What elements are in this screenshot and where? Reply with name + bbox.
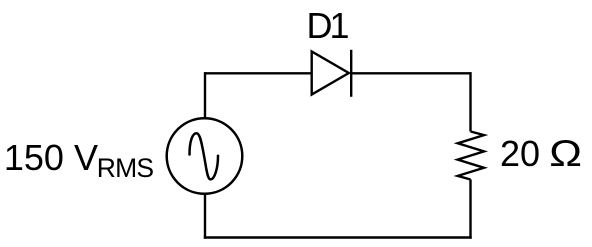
svg-text:20: 20 — [500, 133, 540, 174]
wire bottom — [204, 236, 472, 238]
wire right lower — [469, 180, 471, 239]
svg-text:150 V: 150 V — [4, 137, 98, 178]
svg-text:RMS: RMS — [97, 153, 154, 183]
label Ω (ohm) — [549, 132, 582, 174]
diode D1 triangle (anode) — [312, 52, 349, 95]
wire right upper — [469, 72, 471, 131]
wire top-left segment — [205, 72, 312, 74]
svg-text:Ω: Ω — [549, 132, 582, 174]
AC source sine wave — [190, 133, 219, 179]
svg-text:D1: D1 — [307, 5, 349, 46]
wire top-right segment — [351, 72, 470, 74]
diode D1 cathode bar — [350, 50, 352, 97]
wire left lower — [204, 194, 206, 239]
AC source V1 circle — [167, 118, 243, 194]
wire left upper — [204, 72, 206, 119]
resistor R zigzag — [458, 132, 484, 180]
